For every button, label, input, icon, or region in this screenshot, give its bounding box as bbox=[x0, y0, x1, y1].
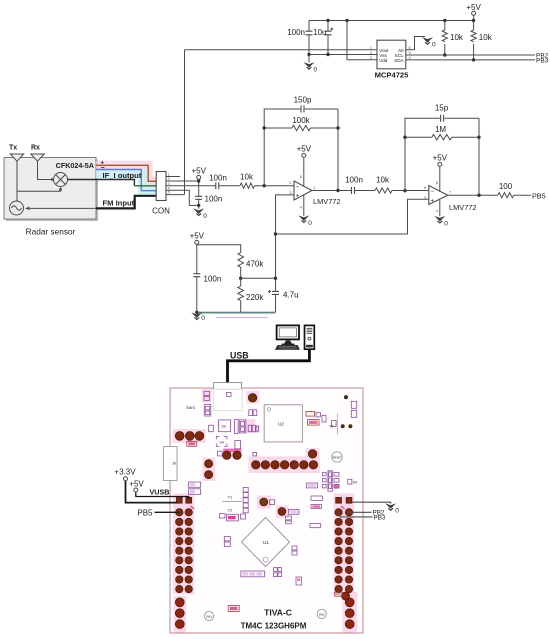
junction gnd line left bbox=[307, 53, 310, 56]
svg-text:0: 0 bbox=[314, 67, 318, 74]
junction bias vertical mid bbox=[274, 277, 277, 280]
wire +5V VUSB to board bbox=[136, 492, 189, 499]
pink patch misc top bbox=[244, 419, 259, 433]
PC monitor bbox=[277, 325, 299, 345]
junction output 1 feedback bbox=[336, 189, 339, 192]
component tiny right of pads bbox=[253, 452, 257, 456]
svg-text:LMV772: LMV772 bbox=[313, 197, 341, 206]
pink patch left header bbox=[173, 493, 194, 594]
svg-text:TIVA-C: TIVA-C bbox=[264, 608, 292, 618]
svg-text:Y2: Y2 bbox=[228, 509, 233, 513]
junction bias ground bbox=[195, 311, 198, 314]
highlight pink over +5V red wire bbox=[96, 165, 156, 181]
small board components bbox=[186, 392, 357, 612]
wire Vout net bbox=[185, 49, 378, 51]
svg-text:PB3: PB3 bbox=[536, 58, 549, 65]
label USB bbox=[230, 351, 249, 361]
pad single mid (u) bbox=[260, 498, 268, 506]
resistor 100k feedback bbox=[264, 116, 338, 131]
svg-text:100n: 100n bbox=[345, 175, 363, 184]
capacitor 100n (top) bbox=[287, 21, 312, 55]
component bits below C22 bbox=[286, 516, 292, 520]
pad bottom-right single bbox=[335, 592, 350, 600]
wire A0 to ground bbox=[406, 37, 423, 50]
capacitor 4.7u polarized bbox=[268, 290, 299, 312]
wire LO tap to mixer bbox=[17, 187, 62, 192]
wire SCL net to PB2 bbox=[406, 54, 535, 56]
connector J9 left edge bbox=[164, 447, 178, 481]
junction feedback 100k right bbox=[336, 126, 339, 129]
pads pair near Y5 bbox=[341, 424, 353, 428]
wire board PB3 bbox=[339, 514, 373, 517]
wire ground line to Vss bbox=[309, 54, 377, 56]
node PB3 bbox=[536, 58, 549, 65]
svg-text:U4: U4 bbox=[220, 440, 224, 444]
USB connector body on board bbox=[214, 389, 243, 410]
svg-text:TM4C 123GH6PM: TM4C 123GH6PM bbox=[241, 622, 307, 631]
junction top rail at 10k R1 bbox=[443, 19, 446, 22]
ground (opamp2) bbox=[434, 200, 448, 227]
svg-text:100n: 100n bbox=[205, 195, 223, 204]
component R13 bbox=[311, 496, 322, 500]
pink patch pad mid2 bbox=[276, 506, 289, 519]
teal artifact line bbox=[197, 313, 276, 315]
CON pin 1 stub bbox=[166, 172, 180, 177]
pin number 2 opamp1 bbox=[289, 180, 292, 185]
component R6 bbox=[310, 524, 320, 528]
resistor 470k bbox=[238, 253, 264, 279]
svg-text:Rx: Rx bbox=[31, 145, 40, 152]
junction gnd line 10u bbox=[326, 53, 329, 56]
component C22 bbox=[289, 509, 299, 514]
header J2 right: pin circles bbox=[335, 509, 353, 593]
pink patch right header bbox=[334, 493, 355, 594]
svg-text:1M: 1M bbox=[435, 125, 446, 134]
antenna Rx bbox=[31, 145, 55, 182]
label Radar sensor bbox=[26, 227, 76, 237]
pad top single bbox=[248, 394, 256, 402]
capacitor 100n coupling 2 bbox=[345, 175, 375, 194]
pad raised above row bbox=[308, 450, 316, 458]
wire opamp2 output bbox=[448, 194, 498, 196]
pin number 2 Vss bbox=[370, 50, 373, 55]
component D4 bbox=[348, 479, 352, 484]
svg-text:+: + bbox=[431, 198, 435, 204]
wire +3.3V to board bbox=[126, 481, 178, 503]
svg-text:0: 0 bbox=[203, 213, 207, 220]
svg-text:0: 0 bbox=[201, 315, 205, 322]
svg-text:470k: 470k bbox=[246, 260, 264, 269]
component pair small bbox=[209, 425, 214, 432]
label + terminal bbox=[101, 160, 105, 166]
wire USB cable bbox=[228, 349, 310, 383]
header J1 left: pin circles bbox=[176, 509, 193, 593]
capacitor 15p feedback bbox=[435, 104, 449, 122]
resistor pack column mid-right bbox=[328, 471, 332, 491]
header J2 right: square pads bbox=[336, 497, 352, 503]
wire board ground bbox=[352, 502, 391, 503]
label PB3 (board) bbox=[374, 514, 386, 521]
pin number 7 opamp2 bbox=[449, 190, 452, 195]
junction bias mid node bbox=[239, 277, 242, 280]
svg-text:100n: 100n bbox=[204, 275, 222, 284]
components right edge bbox=[351, 401, 356, 408]
component left of diamond bbox=[224, 537, 230, 541]
svg-text:SDA: SDA bbox=[394, 58, 404, 63]
svg-text:+3.3V: +3.3V bbox=[114, 468, 136, 477]
component E61 bbox=[228, 606, 239, 612]
svg-text:Vdd: Vdd bbox=[379, 58, 388, 63]
wire green IF to CON bbox=[134, 185, 156, 187]
two tiny squares bbox=[274, 568, 278, 572]
pink patch bottom-left pads bbox=[174, 596, 186, 633]
pads pair above 8-row bbox=[223, 451, 242, 459]
radar block shadow bbox=[6, 160, 98, 222]
svg-text:PB5: PB5 bbox=[532, 191, 546, 200]
resistor 220k bbox=[238, 278, 264, 312]
node PB2 bbox=[536, 53, 549, 60]
pink patch top-left bbox=[202, 389, 212, 403]
component cluster 2x2 bbox=[248, 425, 251, 432]
pink patch 3-pad row bbox=[173, 429, 206, 443]
svg-text:0: 0 bbox=[308, 220, 312, 227]
svg-text:10u: 10u bbox=[313, 28, 326, 37]
oscillator VCO bbox=[10, 201, 24, 215]
component U6 bbox=[219, 420, 231, 432]
pad row of 3 (top left) bbox=[175, 432, 204, 441]
button RESET bbox=[332, 452, 342, 462]
svg-text:100n: 100n bbox=[209, 173, 227, 182]
header J1 left: square pads bbox=[176, 497, 191, 503]
highlight cyan over IF blue wire bbox=[96, 174, 156, 190]
svg-text:15p: 15p bbox=[435, 104, 449, 113]
component tiny top-mid bbox=[227, 393, 232, 397]
wire opamp2 +in to bias bbox=[276, 199, 429, 234]
wire feedback left vertical 2 bbox=[405, 118, 479, 191]
svg-text:100k: 100k bbox=[292, 116, 310, 125]
svg-text:CON: CON bbox=[152, 207, 170, 216]
svg-text:U1: U1 bbox=[263, 540, 269, 545]
wire +5V top rail bbox=[309, 20, 474, 22]
resistor 10k pullup SDA bbox=[471, 21, 493, 60]
junction inverting node 1 bbox=[263, 184, 266, 187]
svg-text:10k: 10k bbox=[479, 33, 493, 42]
pin number 1 opamp1 bbox=[314, 185, 317, 190]
pink patch 8-pad row bbox=[249, 448, 321, 473]
pink patch pad u-mid bbox=[257, 496, 271, 509]
button SW2 bbox=[317, 609, 326, 618]
connector CON bbox=[152, 172, 170, 216]
pads pair mid-left column bbox=[205, 460, 213, 479]
junction gnd node CON bbox=[197, 204, 200, 207]
svg-text:SW2: SW2 bbox=[319, 612, 326, 616]
IC U2 bbox=[264, 405, 302, 442]
magenta tick right header bbox=[341, 506, 345, 509]
component T1 tall rects bbox=[235, 419, 239, 433]
capacitor 100n decoupling (CON) bbox=[195, 195, 222, 206]
svg-text:IF_I output: IF_I output bbox=[103, 171, 142, 180]
label FM Input bbox=[103, 198, 135, 207]
wire PB5 to board bbox=[155, 511, 180, 513]
svg-text:R60: R60 bbox=[335, 593, 341, 597]
svg-text:Y1: Y1 bbox=[228, 496, 233, 500]
label PB2 (board) bbox=[373, 510, 385, 517]
junction feedback 1M right bbox=[477, 136, 480, 139]
svg-text:10k: 10k bbox=[376, 175, 390, 184]
component R25 under 3 pads bbox=[187, 441, 197, 446]
svg-text:150p: 150p bbox=[294, 96, 312, 105]
magenta tick left header bbox=[191, 506, 195, 509]
pink patch top pad bbox=[247, 391, 260, 404]
node PB5 bbox=[532, 191, 546, 200]
svg-text:+5V: +5V bbox=[466, 3, 481, 12]
pin number 3 Vdd bbox=[370, 55, 373, 60]
USB connector (board top) bbox=[214, 383, 242, 390]
component bottom mid small bbox=[296, 577, 302, 585]
pin number 6 opamp2 bbox=[424, 185, 427, 190]
junction top rail at Vdd drop bbox=[345, 19, 348, 22]
svg-text:220k: 220k bbox=[246, 293, 264, 302]
IC U1 diamond bbox=[242, 518, 290, 567]
pin number 5 opamp2 bbox=[424, 195, 427, 200]
component row above TM4C text bbox=[241, 571, 265, 577]
svg-text:10k: 10k bbox=[240, 172, 254, 181]
component U4 bracket bbox=[216, 436, 227, 446]
svg-text:+5V: +5V bbox=[433, 154, 448, 163]
svg-text:+5V: +5V bbox=[129, 480, 144, 489]
svg-text:100n: 100n bbox=[287, 28, 305, 37]
label IF_I output bbox=[103, 171, 142, 180]
svg-text:+5V: +5V bbox=[190, 232, 205, 241]
svg-text:D4: D4 bbox=[353, 480, 357, 484]
resistor 10k input 1 bbox=[240, 172, 294, 188]
svg-text:U2: U2 bbox=[278, 422, 284, 427]
wire black mixer IF out bbox=[68, 180, 135, 186]
junction feedback 100k left bbox=[263, 126, 266, 129]
component below diamond bbox=[292, 546, 297, 550]
svg-text:0: 0 bbox=[395, 508, 399, 515]
junction SCL/10k bbox=[443, 53, 446, 56]
ground (top left) bbox=[304, 55, 318, 74]
wire mid node to cap bbox=[241, 277, 276, 279]
ground (board) bbox=[385, 503, 399, 514]
component sq left of pads bbox=[218, 451, 223, 456]
svg-text:MCP4725: MCP4725 bbox=[375, 71, 410, 80]
svg-text:+: + bbox=[296, 194, 300, 200]
wire opamp1 output bbox=[312, 190, 352, 192]
svg-text:USB: USB bbox=[230, 351, 249, 361]
wire opamp1 +in to bias bbox=[276, 195, 295, 292]
pin number 6 A0 bbox=[409, 45, 412, 50]
svg-text:FM Input: FM Input bbox=[103, 198, 135, 207]
svg-text:4.7u: 4.7u bbox=[283, 291, 299, 300]
CON pin 3 wire IF signal bbox=[166, 181, 216, 186]
wire blue GND radar bbox=[96, 170, 156, 191]
label CFK024-5A bbox=[56, 161, 94, 170]
pink patch bottom-right pads bbox=[343, 592, 358, 633]
wire bias bottom rail bbox=[197, 311, 276, 313]
resistor 10k input 2 bbox=[375, 175, 429, 193]
radar block body bbox=[4, 158, 96, 220]
wire feedback right vertical 2 bbox=[478, 118, 480, 195]
wire bias top rail bbox=[197, 245, 241, 253]
svg-text:Radar sensor: Radar sensor bbox=[26, 227, 76, 237]
lavender artifact line bbox=[216, 317, 268, 319]
LDO pair left bbox=[189, 482, 201, 487]
tiny labels left of pack bbox=[323, 473, 327, 476]
capacitor 100n coupling 1 bbox=[209, 173, 240, 189]
junction feedback 1M left bbox=[403, 136, 406, 139]
ground (A0) bbox=[422, 37, 436, 49]
resistor 1M feedback bbox=[405, 125, 479, 140]
pads bottom-right column bbox=[345, 598, 354, 629]
pad single mid2 bbox=[278, 508, 286, 516]
pin number 3 opamp1 bbox=[289, 190, 292, 195]
svg-text:LMV772: LMV772 bbox=[449, 203, 477, 212]
label TIVA-C bbox=[264, 608, 292, 618]
component sq next to pad u bbox=[270, 500, 275, 505]
svg-text:RESET: RESET bbox=[333, 455, 342, 459]
TIVA board outline bbox=[170, 388, 363, 633]
op-amp U1A LMV772 bbox=[294, 181, 341, 206]
label TM4C 123GH6PM bbox=[241, 622, 307, 631]
svg-text:SW1: SW1 bbox=[206, 614, 213, 618]
resistor 100 output bbox=[498, 182, 531, 198]
power +5V (opamp1) bbox=[297, 145, 312, 188]
ground (bias) bbox=[191, 312, 205, 321]
svg-text:PB5: PB5 bbox=[137, 508, 153, 517]
wire feedback left vertical 1 bbox=[264, 109, 338, 186]
label PB5 (board) bbox=[137, 508, 153, 517]
power +3.3V bbox=[114, 468, 136, 481]
component C30 top-left bbox=[204, 392, 210, 396]
ground (CON) bbox=[193, 205, 207, 219]
svg-text:+5V: +5V bbox=[297, 145, 312, 154]
junction top rail at 10u bbox=[326, 19, 329, 22]
power +5V (CON) bbox=[191, 167, 206, 197]
pin number 5 SCL bbox=[409, 50, 412, 55]
svg-text:PB3: PB3 bbox=[374, 514, 386, 521]
svg-text:VUSB: VUSB bbox=[150, 487, 170, 496]
PC tower bbox=[305, 325, 315, 349]
label - terminal bbox=[101, 165, 105, 172]
MCU pin column bbox=[243, 487, 248, 492]
resistor 10k pullup SCL bbox=[442, 21, 464, 56]
wire FM to oscillator (arrow) bbox=[26, 207, 97, 211]
pink patch 2 pads mid-left bbox=[203, 458, 216, 482]
svg-text:Tx: Tx bbox=[9, 145, 17, 152]
wire SDA net to PB3 bbox=[406, 59, 535, 61]
component vert rect bbox=[235, 441, 241, 449]
antenna Tx bbox=[9, 145, 24, 202]
wire red +5V radar bbox=[96, 165, 156, 181]
capacitor 150p feedback bbox=[294, 96, 312, 113]
wire DAC Vout long vertical to CON pin5 bbox=[184, 50, 186, 195]
capacitor 10u (top, polarized) bbox=[313, 21, 333, 55]
magenta highlight band bbox=[223, 449, 241, 453]
power +5V (board) bbox=[129, 480, 144, 493]
IC U-DAC MCP4725 bbox=[375, 40, 410, 79]
CON pin 2 wire to +5V bbox=[166, 176, 199, 181]
ground (opamp1) bbox=[298, 195, 312, 227]
wire black FM input thick bbox=[96, 196, 156, 209]
svg-text:CFK024-5A: CFK024-5A bbox=[56, 161, 94, 170]
svg-text:100: 100 bbox=[499, 182, 513, 191]
wire feedback right vertical 1 bbox=[337, 109, 339, 191]
pin number 4 SDA bbox=[409, 55, 412, 60]
component C15 pink bbox=[311, 505, 321, 509]
pads bottom-left column bbox=[175, 598, 184, 629]
CON pin 5 wire from DAC bbox=[166, 190, 185, 195]
junction bias branch bbox=[274, 232, 277, 235]
component U5 top-left vertical bbox=[204, 405, 211, 417]
svg-text:SW3: SW3 bbox=[186, 405, 195, 410]
power +5V (bias) bbox=[190, 232, 205, 274]
svg-text:U6: U6 bbox=[222, 425, 226, 429]
wire Vdd net bbox=[347, 21, 377, 60]
svg-text:+5V: +5V bbox=[191, 167, 206, 176]
junction top rail at +5V bbox=[472, 19, 475, 22]
op-amp U1B LMV772 bbox=[429, 186, 477, 212]
button SW1 bbox=[204, 611, 213, 620]
label VUSB bbox=[150, 487, 170, 496]
component 2x2 right of pad bbox=[249, 410, 253, 416]
junction inverting node 2 bbox=[403, 189, 406, 192]
pad row of 7 (middle) bbox=[252, 461, 318, 469]
svg-text:J9: J9 bbox=[172, 462, 176, 466]
pin number 1 Vout bbox=[370, 45, 373, 50]
capacitor 100n bias bbox=[193, 274, 221, 313]
pad small dark top right bbox=[344, 395, 348, 399]
CON pin 4 wire to ground bbox=[166, 185, 199, 205]
svg-text:−: − bbox=[296, 184, 300, 190]
junction output 2 feedback bbox=[477, 194, 480, 197]
power +5V (opamp2) bbox=[433, 154, 448, 193]
power +5V (top right) bbox=[466, 3, 481, 21]
junction SDA/10k bbox=[472, 58, 475, 61]
PC keyboard bbox=[275, 345, 299, 349]
tiny labels right of pack bbox=[334, 473, 339, 477]
component C12 bbox=[306, 483, 317, 488]
svg-text:10k: 10k bbox=[450, 33, 464, 42]
wire board PB2 bbox=[349, 511, 372, 513]
components top right group bbox=[306, 412, 315, 417]
components below Y2 bbox=[220, 514, 226, 519]
svg-text:0: 0 bbox=[444, 220, 448, 227]
svg-text:0: 0 bbox=[432, 42, 436, 49]
svg-text:−: − bbox=[431, 189, 435, 195]
mixer bbox=[54, 173, 68, 187]
svg-text:Y5: Y5 bbox=[329, 425, 333, 429]
junction +5V pin2 bbox=[197, 179, 200, 182]
